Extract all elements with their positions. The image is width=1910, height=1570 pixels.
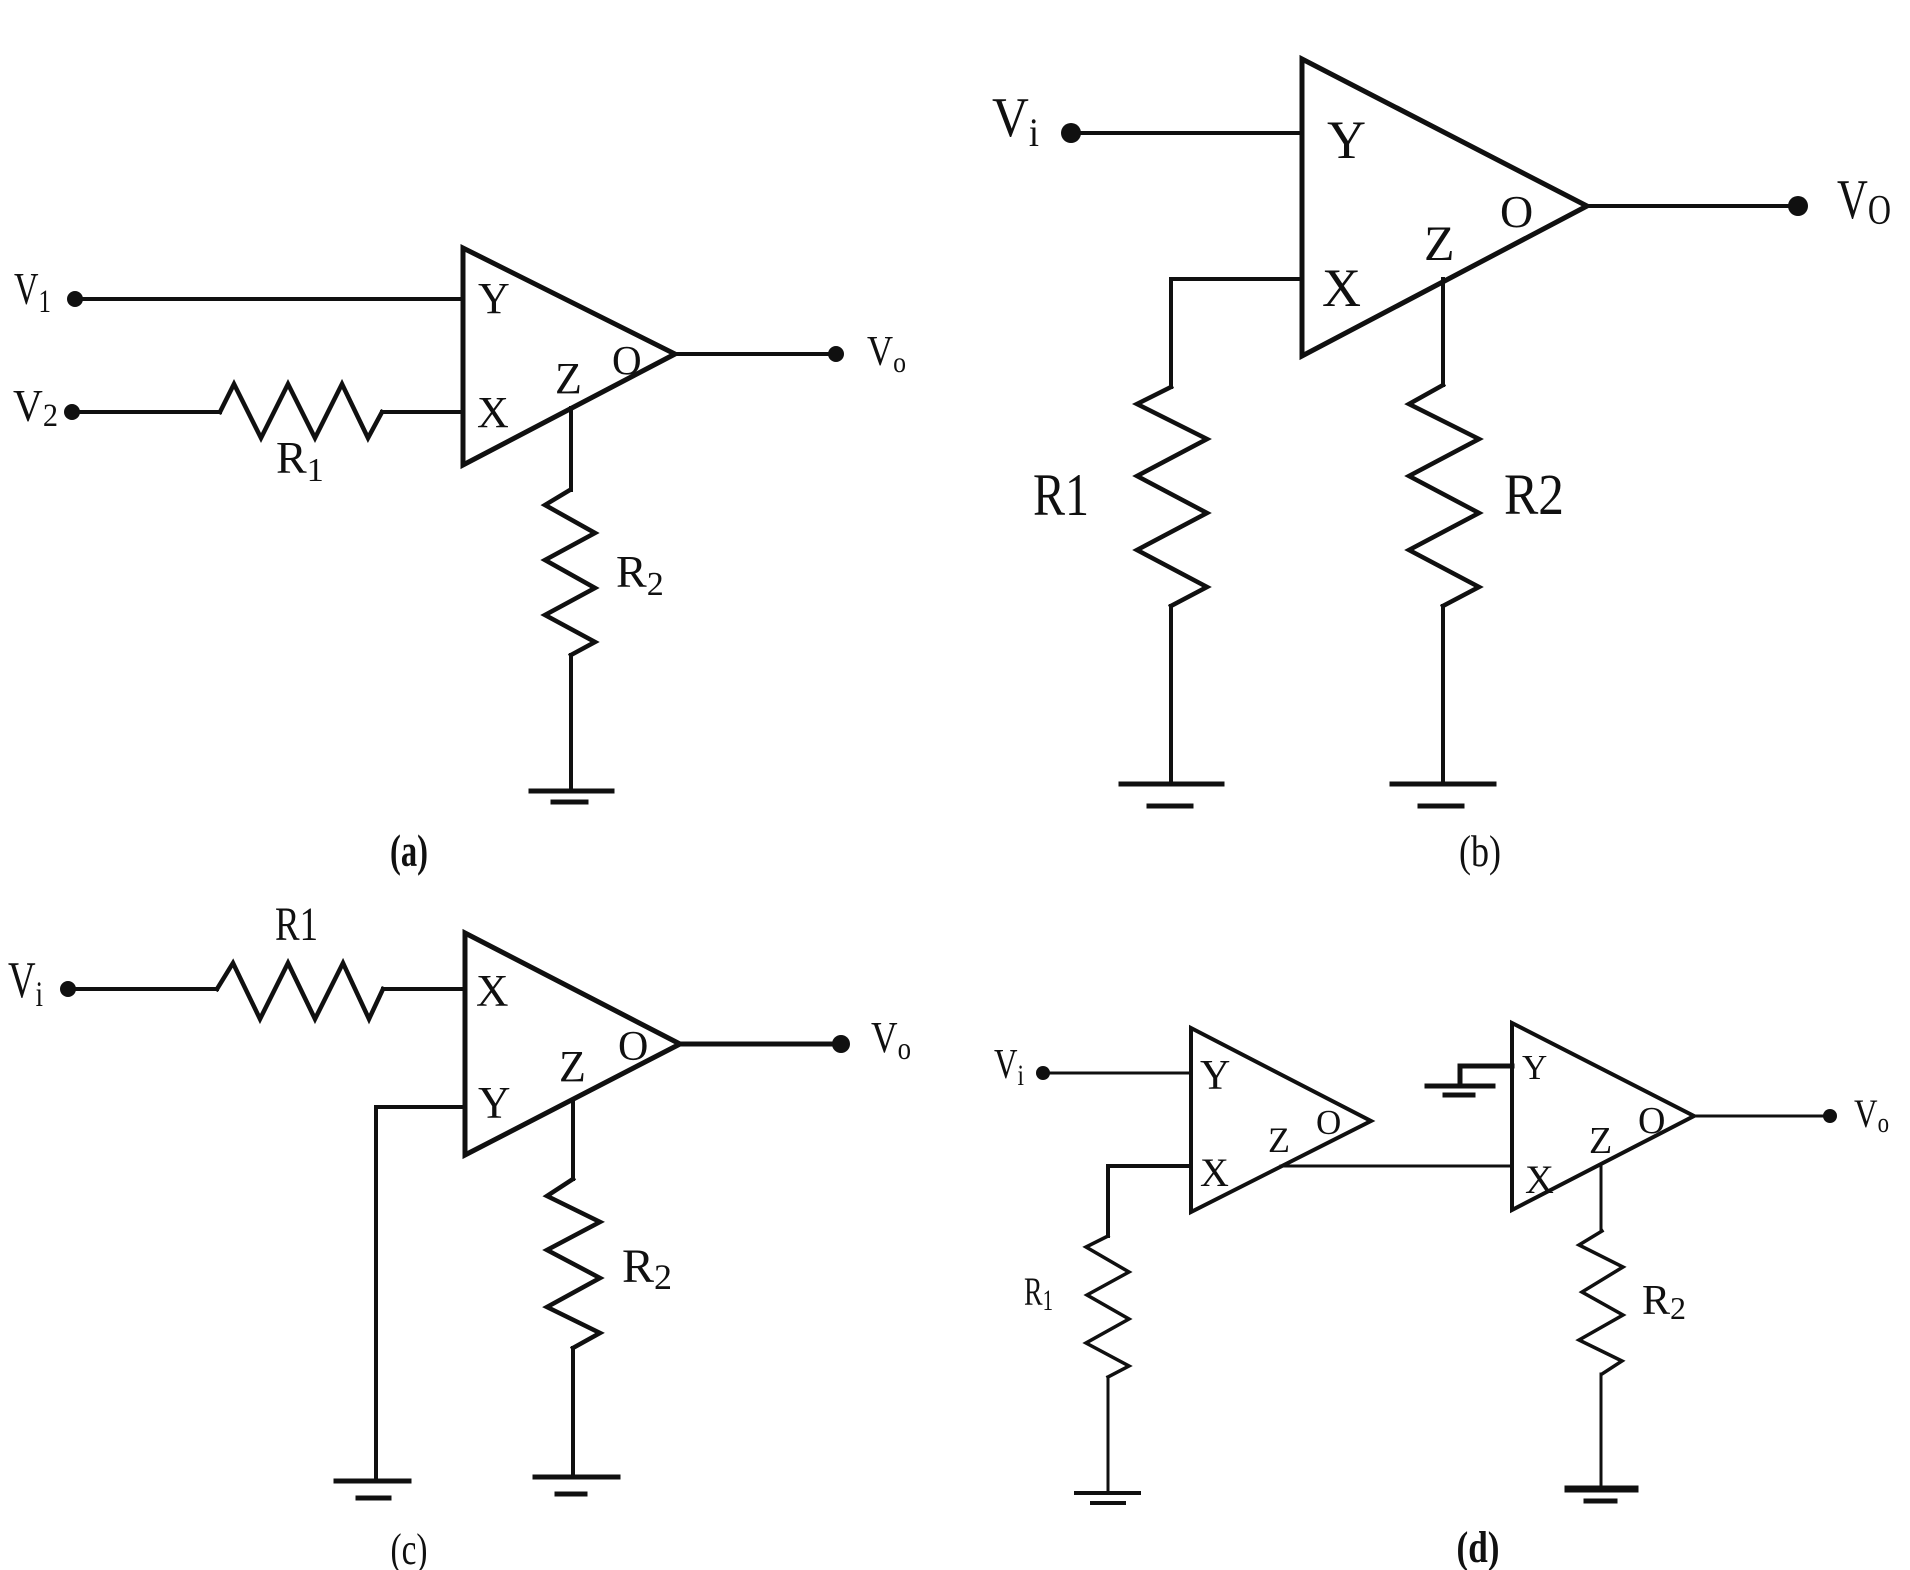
svg-text:Vo: Vo (871, 1013, 911, 1066)
wire pin X to node A (b) (1171, 279, 1302, 387)
svg-text:Z: Z (1424, 215, 1455, 271)
wire pin X to R1 (d) (1108, 1166, 1191, 1236)
wire Vi to pin Y (d1) (1050, 1072, 1191, 1075)
svg-text:X: X (477, 388, 509, 437)
svg-text:R1: R1 (275, 898, 318, 951)
svg-text:Y: Y (478, 1078, 511, 1128)
svg-text:(d): (d) (1457, 1523, 1500, 1570)
wire and ground on pin Y (d2) (1460, 1066, 1512, 1086)
svg-text:O: O (1638, 1100, 1665, 1142)
wire R2 to ground (a) (569, 655, 573, 790)
terminal dot V2 (64, 404, 80, 420)
terminal dot Vo (a) (828, 346, 844, 362)
svg-text:X: X (1525, 1157, 1554, 1202)
svg-text:R2: R2 (1504, 462, 1564, 527)
svg-text:R1: R1 (276, 432, 324, 489)
resistor R2 (d) (1579, 1231, 1623, 1374)
wire pin Y to ground (c) (376, 1107, 465, 1480)
current conveyor U1 (d) triangle (1191, 1028, 1371, 1212)
svg-text:V2: V2 (13, 381, 58, 434)
resistor R1 (a) (220, 384, 382, 438)
svg-text:R1: R1 (1033, 462, 1089, 528)
svg-text:Vo: Vo (867, 329, 906, 379)
current conveyor U2 (d) triangle (1512, 1023, 1694, 1210)
svg-text:Y: Y (1327, 110, 1366, 170)
svg-text:(c): (c) (391, 1525, 428, 1570)
svg-text:X: X (476, 966, 509, 1016)
wire Vi to pin Y (b) (1080, 131, 1302, 135)
wire O to Vo (c) (680, 1042, 833, 1047)
ground on Y (c) (336, 1481, 409, 1498)
svg-text:R2: R2 (1642, 1278, 1686, 1326)
terminal dot Vo (c) (832, 1035, 850, 1053)
ground under R2 (b) (1392, 784, 1494, 806)
resistor R2 (b) (1409, 385, 1479, 606)
current conveyor U1 (a) triangle (463, 248, 675, 465)
svg-text:R1: R1 (1024, 1269, 1053, 1317)
svg-text:Z: Z (1589, 1120, 1612, 1162)
terminal dot Vi (b) (1061, 123, 1081, 143)
svg-text:VO: VO (1837, 169, 1891, 234)
ground under R2 (d) (1568, 1489, 1635, 1501)
svg-text:R2: R2 (616, 546, 664, 603)
wire R2 to ground (b) (1441, 606, 1445, 784)
ground under R1 (b) (1121, 784, 1222, 806)
wire R2 to ground (c) (571, 1348, 575, 1476)
resistor R1 (d) (1086, 1236, 1129, 1377)
svg-text:Y: Y (478, 274, 510, 323)
wire R1 to ground (d) (1107, 1377, 1110, 1492)
wire V1 to pin Y (a) (82, 297, 463, 301)
svg-text:O: O (1500, 186, 1533, 237)
svg-text:Y: Y (1522, 1048, 1547, 1087)
terminal dot Vi (d) (1036, 1066, 1050, 1080)
wire pin Z to R2 (c) (571, 1100, 575, 1179)
svg-text:R2: R2 (622, 1240, 672, 1297)
svg-text:X: X (1200, 1150, 1229, 1195)
ground (a) (531, 791, 612, 802)
svg-text:O: O (612, 337, 642, 383)
terminal dot Vo (b) (1788, 196, 1808, 216)
wire O to Vo (a) (675, 352, 828, 356)
svg-text:Vi: Vi (992, 87, 1039, 155)
svg-text:Vo: Vo (1854, 1091, 1889, 1139)
svg-text:(a): (a) (390, 825, 428, 876)
svg-text:Z: Z (1268, 1120, 1290, 1160)
resistor R2 (c) (547, 1179, 600, 1348)
terminal dot V1 (67, 291, 83, 307)
ground bars on Y (d2) (1427, 1086, 1493, 1095)
ground under R2 (c) (535, 1477, 618, 1494)
wire R1 to ground (b) (1169, 606, 1173, 783)
svg-text:Z: Z (555, 354, 582, 403)
svg-text:Y: Y (1200, 1053, 1230, 1099)
svg-text:X: X (1322, 258, 1361, 318)
wire Vi to R1 (c) (76, 987, 217, 991)
wire pin Z to R2 (d) (1600, 1167, 1603, 1231)
svg-text:(b): (b) (1459, 827, 1501, 876)
svg-text:Z: Z (559, 1042, 586, 1091)
wire O to Vo (b) (1587, 204, 1789, 208)
svg-text:Vi: Vi (8, 952, 43, 1014)
wire pin Z to R2 (b) (1441, 279, 1445, 385)
resistor R2 (a) (545, 490, 595, 655)
wire pin Z (d1) to pin X (d2) (1281, 1165, 1512, 1168)
current conveyor U1 (c) triangle (465, 933, 680, 1155)
resistor R1 (c) (217, 963, 383, 1019)
svg-text:Vi: Vi (994, 1042, 1024, 1092)
svg-text:V1: V1 (14, 264, 51, 320)
wire Z to R2 (a) (569, 408, 573, 490)
resistor R1 (b) (1137, 387, 1207, 606)
wire V2 to R1 (a) (79, 410, 220, 414)
terminal dot Vo (d) (1823, 1109, 1837, 1123)
terminal dot Vi (c) (60, 981, 76, 997)
svg-text:O: O (1316, 1103, 1341, 1142)
svg-text:O: O (618, 1024, 648, 1070)
wire O to Vo (d) (1694, 1115, 1822, 1118)
wire R2 to ground (d) (1600, 1374, 1603, 1488)
wire R1 to pin X (a) (382, 410, 463, 414)
current conveyor U1 (b) triangle (1302, 59, 1587, 356)
ground under R1 (d) (1076, 1493, 1139, 1503)
wire R1 to pin X (c) (383, 987, 465, 991)
